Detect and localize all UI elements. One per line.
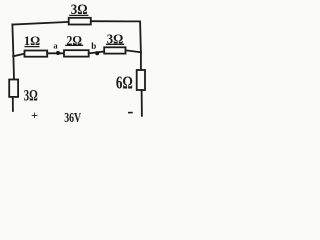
- wire left bottom (+ terminal lead): [12, 97, 14, 111]
- svg-text:36V: 36V: [64, 110, 81, 125]
- underline of 3Ω top: [69, 14, 88, 16]
- svg-text:b: b: [91, 41, 96, 51]
- resistor R4 3Ω middle-right: [104, 47, 125, 53]
- resistor R3 2Ω: [64, 50, 89, 56]
- wire top left segment: [12, 22, 68, 25]
- underline of 1Ω: [25, 46, 40, 48]
- svg-text:3Ω: 3Ω: [24, 87, 38, 104]
- node a junction dot: [56, 51, 60, 55]
- resistor R2 1Ω: [25, 51, 48, 57]
- svg-text:6Ω: 6Ω: [116, 73, 133, 93]
- wire middle left stub: [13, 54, 24, 57]
- svg-text:3Ω: 3Ω: [107, 33, 124, 48]
- node b junction dot: [95, 51, 99, 55]
- resistor R6 6Ω right vertical: [137, 70, 145, 90]
- wire left vertical (top corner to left resistor): [12, 25, 14, 80]
- wire middle right stub: [126, 50, 141, 52]
- resistor R5 3Ω left vertical: [9, 80, 18, 97]
- svg-text:+: +: [31, 108, 38, 122]
- svg-text:2Ω: 2Ω: [66, 34, 82, 49]
- label - terminal: [128, 112, 133, 114]
- svg-text:a: a: [53, 41, 58, 51]
- wire top right segment: [91, 20, 140, 22]
- wire right vertical upper: [139, 21, 142, 70]
- underline of 2Ω: [65, 44, 83, 46]
- underline of 3Ω middle-right: [106, 43, 124, 45]
- resistor R1 3Ω top: [69, 18, 91, 25]
- wire b segment: [89, 52, 105, 54]
- wire a segment: [47, 52, 64, 54]
- wire right bottom (- terminal lead): [141, 90, 143, 116]
